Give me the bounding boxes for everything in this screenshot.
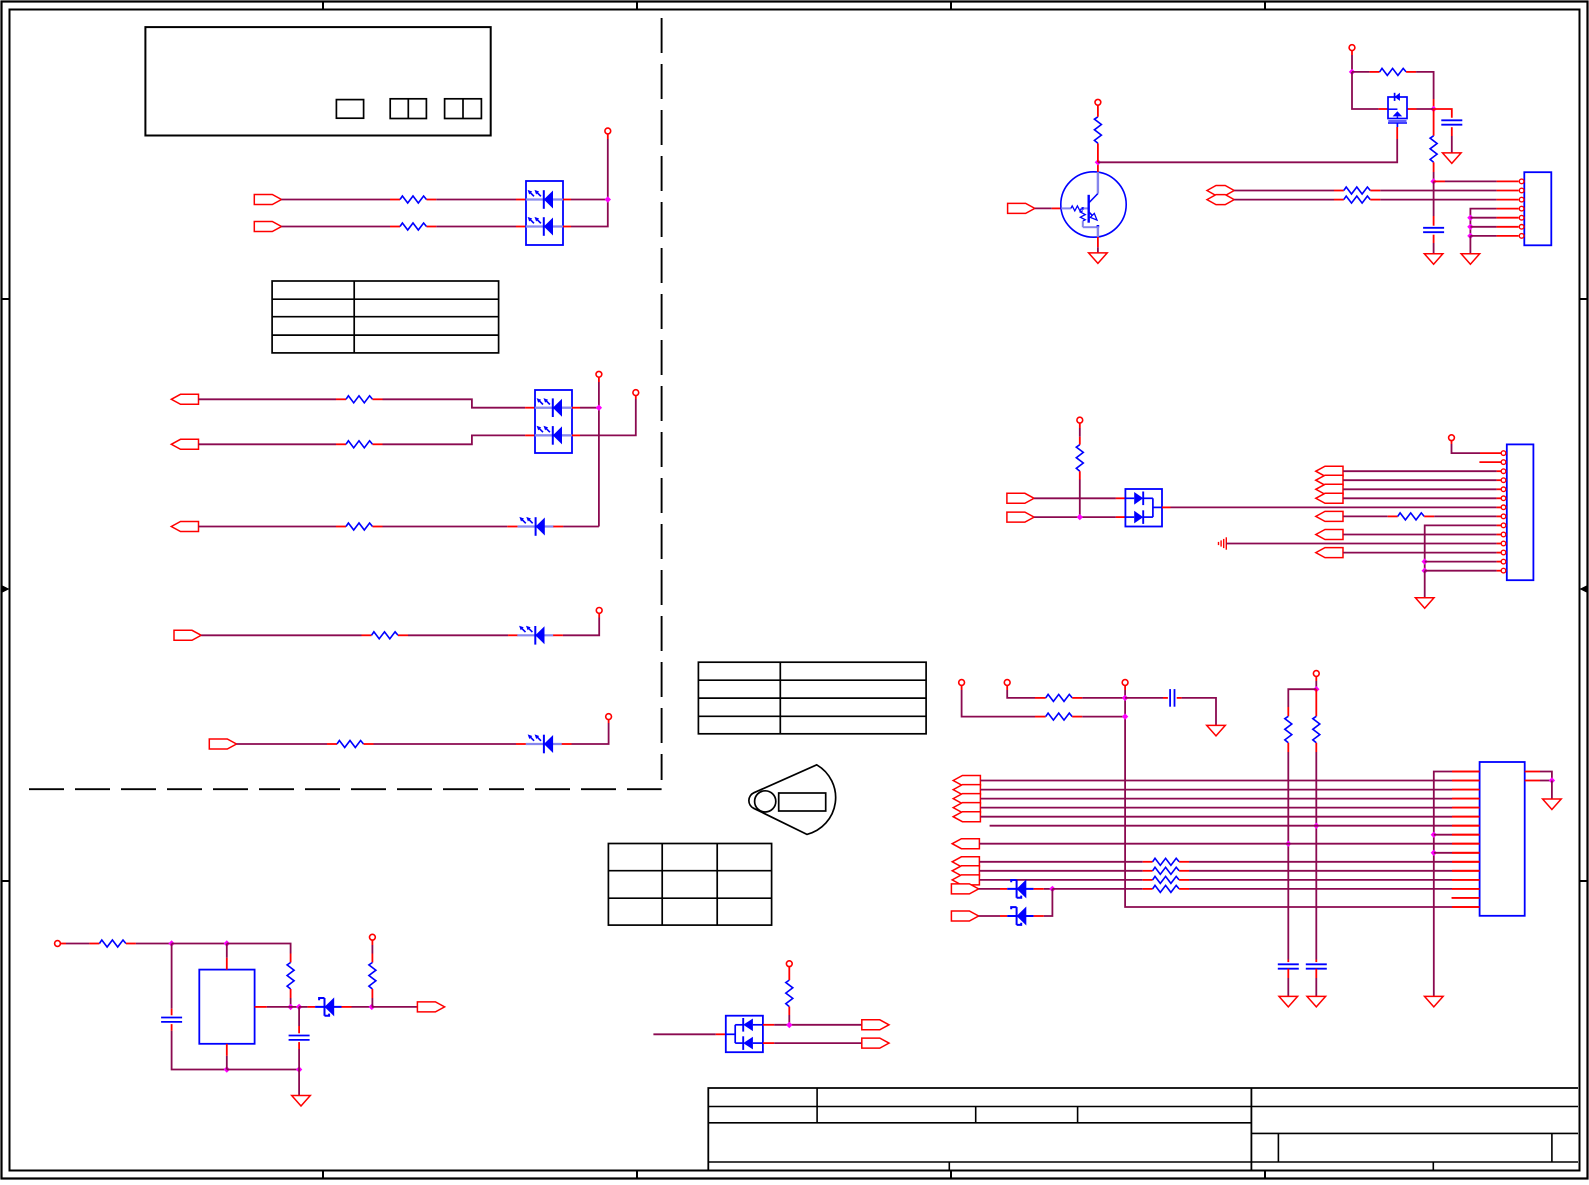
title block h-line row2 left bbox=[708, 1122, 1251, 1124]
connector J1 pin 1 circle bbox=[1519, 179, 1524, 184]
connector J2 bbox=[1507, 444, 1534, 580]
wire R21 to node1 bbox=[136, 943, 172, 945]
MOSFET Q2 gate plate bbox=[1388, 120, 1406, 122]
resistor R2 bbox=[390, 226, 400, 228]
zener Z3 bbox=[315, 1006, 341, 1008]
wire to J2 pin14 bbox=[1425, 570, 1497, 572]
wire VCC10 to R16 bbox=[962, 690, 1035, 717]
dual LED D2 box bbox=[535, 390, 572, 453]
wire PA6 to J2 bbox=[1343, 552, 1496, 554]
wire C4 to ground bbox=[1287, 978, 1289, 996]
junction node7 bbox=[369, 1004, 375, 1010]
dual diode D6 element A bbox=[1125, 497, 1134, 499]
port OUT2 bbox=[171, 439, 198, 449]
wire node to J1 pin1 bbox=[1434, 180, 1445, 182]
junction J3 pin8 bbox=[1431, 832, 1437, 838]
wire IN2 to R2 bbox=[281, 226, 390, 228]
wire VCC7 node to R9 bbox=[1352, 71, 1370, 73]
connector J2 pin 2 circle bbox=[1501, 460, 1506, 465]
power pin VCC8 bbox=[1077, 417, 1083, 423]
connector J3 pin 8 lead bbox=[1452, 834, 1480, 836]
ground GND5 bbox=[1415, 598, 1434, 609]
power pin VCC12 bbox=[1122, 680, 1128, 686]
wire R13 to portD node bbox=[1079, 480, 1081, 518]
dashed partition horizontal line bbox=[29, 788, 662, 790]
center arrow left edge bbox=[1, 588, 6, 590]
capacitor C3 lead right bbox=[1177, 697, 1182, 699]
wire J2 gnd vertical bbox=[1424, 571, 1426, 598]
zone tick right 1 bbox=[1580, 298, 1589, 300]
power pin VCC5 bbox=[606, 714, 612, 720]
junction rail node5 bbox=[296, 1066, 302, 1072]
port IN1 bbox=[254, 195, 281, 205]
port BUS4 bbox=[953, 812, 980, 822]
port PA2 bbox=[1316, 484, 1343, 494]
zone tick top 2 bbox=[636, 1, 638, 10]
wire PA4 to R14 bbox=[1343, 515, 1388, 517]
pin lead D1 cathode B bbox=[563, 226, 571, 228]
connector J3 bbox=[1480, 762, 1525, 916]
port SIG1 bbox=[1007, 493, 1034, 503]
resistor series port BUS7 bbox=[1143, 861, 1153, 863]
pin lead Q2 source bbox=[1379, 108, 1388, 110]
wire R20 to node bbox=[788, 1015, 790, 1025]
resistor R10 drain to J1 bbox=[1433, 109, 1435, 136]
title block cell v-line a bbox=[1277, 1133, 1279, 1162]
pin lead U1 out bbox=[255, 1006, 267, 1008]
junction rail lower bbox=[1122, 713, 1128, 719]
transistor Q1 emitter bbox=[1089, 212, 1095, 218]
wire SGND1 to J2 pin11 bbox=[1226, 543, 1496, 545]
annotation small box 2 (two cells) bbox=[390, 99, 426, 119]
port PA0 bbox=[1316, 466, 1343, 476]
wire OUT2 to R4 bbox=[199, 443, 337, 445]
connector J3 pin 14 lead bbox=[1452, 888, 1480, 890]
pin lead D1 anode 2 bbox=[516, 226, 526, 228]
wire node7 to port bbox=[372, 1006, 418, 1008]
wire port PA3 to J2 bbox=[1343, 497, 1496, 499]
title block h-line right bbox=[1251, 1132, 1578, 1134]
junction node3 bbox=[287, 1004, 293, 1010]
wire VCC7 to node bbox=[1351, 55, 1353, 72]
power pin VCC7 bbox=[1349, 45, 1355, 51]
connector J3 pin 3 lead bbox=[1452, 789, 1480, 791]
wire J3 right to ground bbox=[1551, 781, 1553, 800]
power pin VCC14 bbox=[786, 961, 792, 967]
connector J3 pin 1 lead bbox=[1452, 771, 1480, 773]
title block v-divider row2 b bbox=[1077, 1107, 1079, 1123]
resistor series port BUS9 bbox=[1143, 879, 1153, 881]
pin lead D2 cathode A bbox=[572, 407, 580, 409]
wire VCC13 to node bbox=[1315, 681, 1317, 689]
connector J1 pin 7 circle bbox=[1519, 234, 1524, 239]
connector J2 pin 4 circle bbox=[1501, 478, 1506, 483]
ground GND3 bbox=[1461, 254, 1480, 265]
wire to J3 pin8 bbox=[1434, 834, 1452, 836]
pin lead D6 anode B bbox=[1116, 516, 1126, 518]
wire Q1 collector to Q2 gate bbox=[1098, 139, 1397, 162]
pin lead D2 cathode B bbox=[572, 434, 580, 436]
connector J3 pin 11 lead bbox=[1452, 861, 1480, 863]
dual diode D6 box bbox=[1125, 489, 1162, 527]
pin lead Q2 gate bbox=[1396, 127, 1398, 139]
connector J2 pin 14 circle bbox=[1501, 568, 1506, 573]
wire VCC11 to R15 bbox=[1007, 690, 1035, 698]
wire D3 to VCC2 net bbox=[563, 526, 599, 528]
wire J3 pin1 branch bbox=[1452, 771, 1480, 773]
connector J1 pin 5 circle bbox=[1519, 215, 1524, 220]
resistor R19 bbox=[1143, 888, 1153, 890]
junction J1 pin6 bbox=[1467, 224, 1473, 230]
wire D4 to VCC4 bbox=[563, 618, 599, 636]
capacitor C7 lead bbox=[298, 1026, 300, 1033]
wire node to R17 bbox=[1288, 689, 1316, 707]
port DATA- bidir bbox=[1207, 195, 1234, 205]
power pin VCC9 bbox=[1449, 435, 1455, 441]
wire CTRL1 to Q1 base bbox=[1035, 207, 1052, 209]
title block v-divider row2 a bbox=[975, 1107, 977, 1123]
wire D7A to port bbox=[774, 1024, 862, 1026]
dual LED D1 element B bbox=[526, 226, 544, 228]
wire J2 pin9 branch bbox=[1497, 524, 1502, 526]
resistor R23 bbox=[371, 954, 373, 963]
pin lead D4 anode bbox=[508, 634, 518, 636]
power pin VCC6 bbox=[1095, 99, 1101, 105]
connector J3 pin 5 lead bbox=[1452, 807, 1480, 809]
wire VCC7 node down to Q2 source bbox=[1352, 72, 1379, 109]
resistor R5 bbox=[336, 526, 346, 528]
connector J3 pin 4 lead bbox=[1452, 798, 1480, 800]
ground GND8 bbox=[1307, 996, 1326, 1007]
pin lead Q1 collector bbox=[1097, 162, 1099, 172]
connector J1 pin 6 circle bbox=[1519, 225, 1524, 230]
resistor R4 bbox=[336, 443, 346, 445]
cam mechanical drawing outline bbox=[749, 765, 836, 835]
junction VCC7 node bbox=[1349, 69, 1355, 75]
zone tick bottom 3 bbox=[950, 1171, 952, 1180]
wire VCC16 to R23 bbox=[371, 945, 373, 954]
cam slot rectangle bbox=[779, 793, 826, 811]
wire OUT1 to R3 bbox=[199, 398, 337, 400]
junction J2 pin13 bbox=[1422, 558, 1428, 564]
wire D6 out to J2 pin7 bbox=[1171, 506, 1497, 508]
wire Q1 emitter to ground bbox=[1097, 247, 1099, 253]
connector J1 pin 2 circle bbox=[1519, 188, 1524, 193]
pin lead Z1 bbox=[1000, 888, 1007, 890]
pin lead Z2 bbox=[1000, 915, 1007, 917]
resistor R13 bbox=[1079, 437, 1081, 445]
wire rail to ground bbox=[298, 1070, 300, 1096]
pin lead Z2 cathode bbox=[1034, 915, 1044, 917]
connector J2 pin 13 circle bbox=[1501, 559, 1506, 564]
zone tick bottom 4 bbox=[1264, 1171, 1266, 1180]
wire DATA+ to R11 bbox=[1234, 190, 1334, 192]
connector J2 pin 9 circle bbox=[1501, 523, 1506, 528]
wire C5 to ground bbox=[1315, 978, 1317, 996]
wire cap C2 branch bbox=[1433, 181, 1435, 216]
connector J3 right pin B bbox=[1525, 780, 1540, 782]
pin lead D7 out A bbox=[763, 1024, 774, 1026]
capacitor C7 lower lead bbox=[298, 1042, 300, 1049]
connector J2 pin 1 circle bbox=[1501, 451, 1506, 456]
port OUT4 bbox=[174, 630, 201, 640]
wire SIG1 to D6 bbox=[1034, 497, 1116, 499]
pin lead Q1 emitter bbox=[1097, 237, 1099, 247]
wire port BUS1 to J3 bbox=[980, 789, 1452, 791]
wire VCC8 to R13 bbox=[1079, 428, 1081, 437]
wire C6 to bottom rail bbox=[172, 1031, 227, 1070]
junction D7 pullup bbox=[786, 1022, 792, 1028]
capacitor C5 lower lead bbox=[1315, 969, 1317, 978]
dual LED D1 element A bbox=[526, 199, 544, 201]
wire Z3 to node7 bbox=[352, 1006, 372, 1008]
port OUT1 bbox=[171, 394, 198, 404]
wire R7 to D5 bbox=[374, 743, 517, 745]
junction Q1 collector bbox=[1095, 159, 1101, 165]
junction node1 bbox=[168, 940, 174, 946]
capacitor C6 lead bbox=[171, 1009, 173, 1016]
pin lead J3 pin16 bbox=[1452, 906, 1480, 908]
junction J1 pin7 bbox=[1467, 233, 1473, 239]
capacitor C4 lead bbox=[1287, 960, 1289, 963]
connector J3 pin 2 lead bbox=[1452, 780, 1480, 782]
pin lead Q1 base bbox=[1052, 207, 1061, 209]
wire D1 to node VCC1 bbox=[571, 199, 608, 201]
connector J3 pin 10 lead bbox=[1452, 852, 1480, 854]
power pin VCC3 bbox=[633, 390, 639, 396]
table 2 (4 rows x 2 cols) bbox=[698, 662, 926, 734]
wire R10 to J1 node bbox=[1433, 172, 1435, 181]
zone tick bottom 2 bbox=[636, 1171, 638, 1180]
power pin VCC1 bbox=[605, 128, 611, 134]
wire C1 to ground bbox=[1451, 136, 1453, 153]
port DATA+ bidir bbox=[1207, 186, 1234, 196]
pin lead Z3 bbox=[308, 1006, 316, 1008]
junction J1 pin1 node bbox=[1430, 178, 1436, 184]
junction node6 bbox=[296, 1004, 302, 1010]
junction Q2 drain node bbox=[1430, 106, 1436, 112]
wire R19 to J3 pin14 bbox=[1189, 888, 1452, 890]
wire BUS11 to Z2 bbox=[979, 915, 1000, 917]
wire C6 branch bbox=[171, 944, 173, 1009]
capacitor C4 lower lead bbox=[1287, 969, 1289, 978]
table 1 (4 rows x 2 cols) bbox=[272, 281, 499, 353]
wire D2A to vertical VCC2 bbox=[580, 407, 599, 409]
wire R12 to J1 pin3 bbox=[1380, 199, 1496, 201]
wire R to J3 port BUS7 bbox=[1189, 861, 1452, 863]
connector J1 bbox=[1524, 172, 1551, 245]
pin lead Q2 drain bbox=[1407, 108, 1417, 110]
port BUS11 bbox=[951, 911, 978, 921]
center arrow right edge bbox=[1583, 588, 1588, 590]
wire R5 to D3 bbox=[383, 526, 508, 528]
wire stub to D7 bbox=[653, 1033, 715, 1035]
port IN2 bbox=[254, 222, 281, 232]
port PA1 bbox=[1316, 475, 1343, 485]
wire R9 to drain node bbox=[1416, 72, 1434, 99]
wire DATA- to R12 bbox=[1234, 199, 1334, 201]
power pin VCC13 bbox=[1313, 671, 1319, 677]
wire BUS5 stub to J3 bbox=[990, 825, 1452, 827]
wire BUS10 to Z1 bbox=[979, 888, 1000, 890]
wire R to J3 port BUS9 bbox=[1189, 879, 1452, 881]
junction R17 row bbox=[1285, 841, 1291, 847]
zone tick top 4 bbox=[1264, 1, 1266, 10]
wire Z1 to node bbox=[1044, 888, 1053, 890]
resistor R11 bbox=[1334, 190, 1344, 192]
junction rows34 bbox=[596, 405, 602, 411]
wire port BUS8 to R bbox=[979, 870, 1142, 872]
capacitor C3 bbox=[1169, 689, 1171, 707]
wire VCC12 vertical rail bbox=[1125, 690, 1452, 907]
title block bottom line bbox=[708, 1161, 1578, 1163]
connector J3 pin 15 lead bbox=[1452, 897, 1480, 899]
wire C7 to rail bbox=[298, 1049, 300, 1070]
connector J2 pin 7 circle bbox=[1501, 505, 1506, 510]
ground GND10 bbox=[1543, 799, 1562, 810]
port BUS9 bbox=[952, 875, 979, 885]
wire U1 top pin bbox=[226, 944, 228, 958]
wire IN1 to R1 bbox=[281, 199, 390, 201]
capacitor C7 bbox=[289, 1035, 310, 1037]
wire port BUS9 to R bbox=[979, 879, 1142, 881]
wire D2B to VCC3 bbox=[580, 399, 636, 435]
port OUT3 bbox=[171, 522, 198, 532]
capacitor C4 bbox=[1278, 963, 1299, 965]
resistor series port BUS8 bbox=[1143, 870, 1153, 872]
wire U1 bottom to rail bbox=[226, 1056, 228, 1070]
pin lead D6 anode A bbox=[1116, 497, 1126, 499]
junction VCC13 node bbox=[1313, 686, 1319, 692]
resistor R6 bbox=[362, 634, 372, 636]
ground GND9 bbox=[1425, 996, 1444, 1007]
wire R11 to J1 pin2 bbox=[1380, 190, 1496, 192]
pin lead D7 out B bbox=[763, 1042, 774, 1044]
pin lead D2 anode A bbox=[525, 407, 535, 409]
wire port PA1 to J2 bbox=[1343, 479, 1496, 481]
wire D5 to VCC5 bbox=[572, 723, 609, 744]
wire node to C3 bbox=[1125, 697, 1163, 699]
wire R16 to bus node bbox=[1082, 716, 1125, 718]
pin lead D6 cathode bbox=[1162, 506, 1171, 508]
port DET1 bbox=[862, 1020, 889, 1030]
dual diode D7 element A bbox=[735, 1024, 743, 1026]
port BUS2 bbox=[953, 794, 980, 804]
port BUS10 bbox=[951, 884, 978, 894]
wire R15 to bus node bbox=[1082, 697, 1125, 699]
port PA6 bbox=[1316, 548, 1343, 558]
wire C2 to ground bbox=[1433, 243, 1435, 254]
transistor Q1 base bar bbox=[1087, 195, 1089, 223]
resistor R17 bbox=[1287, 707, 1289, 716]
junction J1 pin5 bbox=[1467, 215, 1473, 221]
wire R4 to D2 bbox=[383, 435, 526, 444]
power pin VCC2 bbox=[596, 371, 602, 377]
port BUS3 bbox=[953, 803, 980, 813]
LED D5 bbox=[526, 743, 562, 745]
dual diode D7 common bus bbox=[726, 1033, 735, 1035]
wire OUT3 to R5 bbox=[199, 526, 337, 528]
wire drain node red bbox=[1433, 99, 1435, 109]
ground GND11 bbox=[292, 1096, 311, 1107]
wire OUT4 to R6 bbox=[201, 634, 361, 636]
port OUT5 bbox=[209, 739, 236, 749]
wire node to R19 bbox=[1052, 888, 1142, 890]
ground GND4 bbox=[1424, 254, 1443, 265]
MOSFET Q2 channel and arrow bbox=[1388, 108, 1397, 110]
dual diode D7 box bbox=[726, 1016, 763, 1052]
capacitor C1 bbox=[1441, 119, 1462, 121]
wire port BUS0 to J3 bbox=[980, 780, 1452, 782]
wire to J1 pin6 bbox=[1470, 226, 1496, 228]
capacitor C6 bbox=[161, 1017, 182, 1019]
connector J3 pin 13 lead bbox=[1452, 879, 1480, 881]
port PA3 bbox=[1316, 493, 1343, 503]
wire BUS6 to J3 bbox=[979, 843, 1452, 845]
resistor R3 bbox=[336, 398, 346, 400]
resistor R12 bbox=[1334, 199, 1344, 201]
port SIG2 bbox=[1007, 512, 1034, 522]
capacitor C5 lead bbox=[1315, 960, 1317, 963]
pin lead D7 common bbox=[716, 1033, 726, 1035]
resistor R16 bbox=[1035, 716, 1046, 718]
wire to J1 pin5 bbox=[1470, 217, 1496, 219]
pin lead D1 cathode A bbox=[563, 199, 571, 201]
port BUS6 bbox=[952, 839, 979, 849]
zener Z2 bbox=[1007, 915, 1033, 917]
title block cell v-line b bbox=[1551, 1133, 1553, 1162]
junction SIG2 pullup bbox=[1077, 514, 1083, 520]
pin lead D3 cathode bbox=[553, 526, 563, 528]
wire Z2 up to Z1 node bbox=[1044, 889, 1053, 916]
LED D4 bbox=[517, 634, 553, 636]
capacitor C3 lead left bbox=[1163, 697, 1168, 699]
wire D1 B to node VCC1 bbox=[571, 139, 608, 227]
junction R18 row bbox=[1313, 823, 1319, 829]
zone tick bottom 1 bbox=[322, 1171, 324, 1180]
connector J2 pin 6 circle bbox=[1501, 496, 1506, 501]
wire R22 to node3 bbox=[290, 998, 292, 1007]
connector J3 pin 9 lead bbox=[1452, 843, 1480, 845]
table 3 (3 rows x 3 cols) bbox=[608, 844, 771, 926]
power pin VCC4 bbox=[596, 608, 602, 614]
resistor R18 bbox=[1315, 689, 1317, 716]
signal ground SGND1 bbox=[1225, 537, 1227, 549]
capacitor C1 lower lead bbox=[1451, 127, 1453, 136]
power pin VCC16 bbox=[370, 934, 376, 940]
zone tick top 3 bbox=[950, 1, 952, 10]
ground GND6 bbox=[1207, 725, 1226, 736]
resistor R14 bbox=[1388, 515, 1398, 517]
wire node2 to R22 corner bbox=[227, 944, 291, 954]
connector J2 pin 12 circle bbox=[1501, 550, 1506, 555]
dual diode D7 element B bbox=[735, 1042, 743, 1044]
capacitor C1 lead bbox=[1434, 109, 1452, 118]
wire R2 to D1 bbox=[436, 226, 516, 228]
transistor Q1 collector bbox=[1089, 194, 1098, 204]
connector J2 pin 8 circle bbox=[1501, 514, 1506, 519]
connector J2 pin 11 circle bbox=[1501, 541, 1506, 546]
power pin VCC15 bbox=[55, 941, 61, 947]
port BUS0 bbox=[953, 776, 980, 786]
wire R23 to node7 bbox=[371, 998, 373, 1007]
wire R17 down bbox=[1287, 752, 1289, 960]
wire VCC2 vertical bbox=[598, 382, 600, 527]
annotation small box 3 (two cells) bbox=[445, 99, 482, 119]
dual LED D2 element B bbox=[535, 434, 553, 436]
connector J2 pin 3 circle bbox=[1501, 469, 1506, 474]
resistor R1 bbox=[390, 199, 400, 201]
